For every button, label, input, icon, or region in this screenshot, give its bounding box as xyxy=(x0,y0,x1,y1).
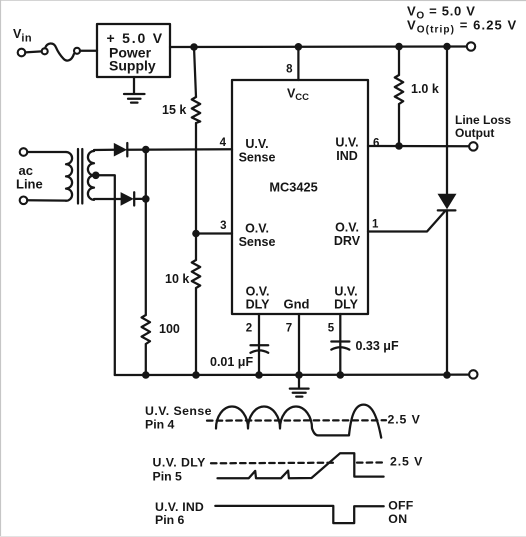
svg-text:U.V.: U.V. xyxy=(335,136,358,150)
svg-text:2.5 V: 2.5 V xyxy=(390,455,423,469)
svg-text:U.V. IND: U.V. IND xyxy=(155,500,204,514)
svg-text:2.5 V: 2.5 V xyxy=(388,413,421,427)
svg-text:10 k: 10 k xyxy=(165,272,189,286)
svg-text:U.V.: U.V. xyxy=(334,285,357,299)
svg-text:0.33 μF: 0.33 μF xyxy=(356,339,399,353)
svg-text:U.V. DLY: U.V. DLY xyxy=(153,456,206,470)
svg-text:6: 6 xyxy=(373,138,379,150)
svg-text:O.V.: O.V. xyxy=(246,285,270,299)
svg-text:IND: IND xyxy=(336,149,358,163)
svg-text:Sense: Sense xyxy=(239,151,276,165)
svg-text:2: 2 xyxy=(246,323,252,335)
svg-text:DLY: DLY xyxy=(246,298,271,312)
svg-text:Line Loss: Line Loss xyxy=(455,113,511,127)
svg-text:DLY: DLY xyxy=(334,298,359,312)
svg-text:100: 100 xyxy=(159,322,180,336)
svg-text:Supply: Supply xyxy=(109,58,156,74)
svg-text:4: 4 xyxy=(220,137,227,149)
svg-text:Pin 5: Pin 5 xyxy=(153,470,183,484)
svg-text:0.01 μF: 0.01 μF xyxy=(210,355,253,369)
svg-text:8: 8 xyxy=(286,64,293,76)
svg-text:Line: Line xyxy=(16,177,43,192)
svg-text:OFF: OFF xyxy=(388,499,413,513)
svg-text:DRV: DRV xyxy=(334,234,361,248)
svg-text:Pin 4: Pin 4 xyxy=(145,418,175,432)
svg-text:Sense: Sense xyxy=(239,235,276,249)
svg-text:ON: ON xyxy=(388,512,407,526)
svg-text:MC3425: MC3425 xyxy=(269,180,317,195)
svg-text:7: 7 xyxy=(286,323,292,335)
svg-text:U.V. Sense: U.V. Sense xyxy=(145,404,212,418)
svg-text:U.V.: U.V. xyxy=(245,137,268,151)
svg-text:5: 5 xyxy=(328,323,335,335)
svg-text:O.V.: O.V. xyxy=(245,222,269,236)
svg-text:1: 1 xyxy=(372,219,379,231)
svg-text:15 k: 15 k xyxy=(162,103,186,117)
svg-text:Pin 6: Pin 6 xyxy=(155,513,185,527)
svg-text:O.V.: O.V. xyxy=(335,221,359,235)
svg-text:1.0 k: 1.0 k xyxy=(411,82,439,96)
svg-text:3: 3 xyxy=(220,220,226,232)
svg-text:Gnd: Gnd xyxy=(284,297,310,312)
svg-text:Output: Output xyxy=(455,126,494,140)
